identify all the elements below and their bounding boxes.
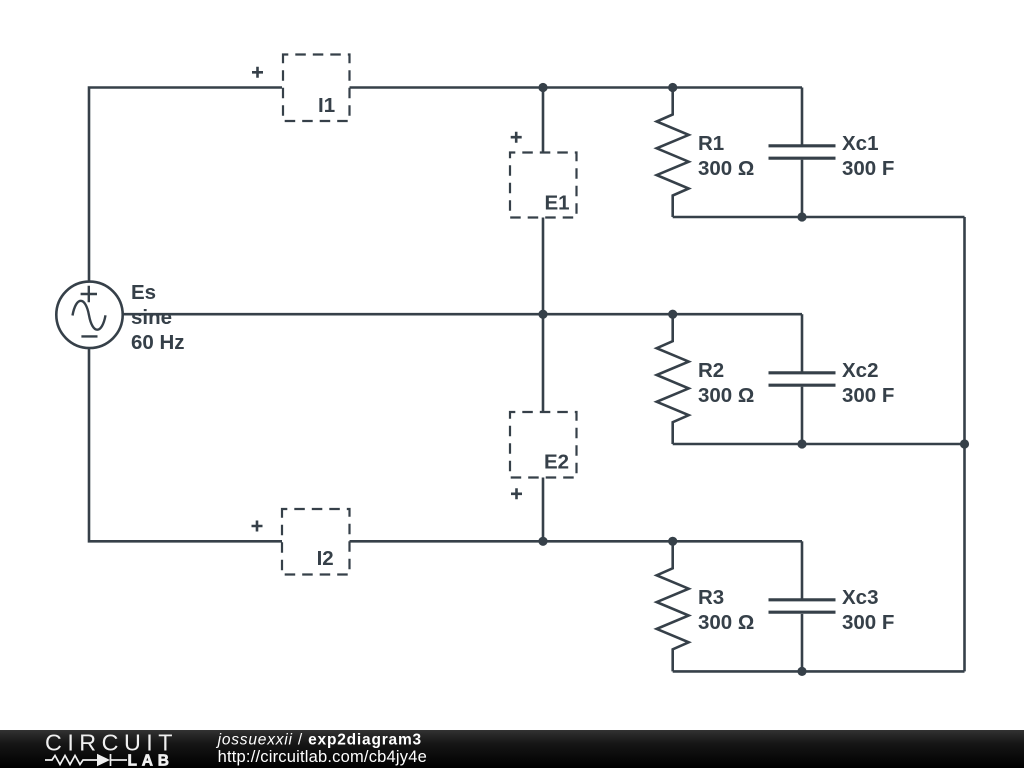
wire	[542, 478, 545, 542]
capacitor XC3	[769, 600, 836, 612]
wire	[673, 216, 965, 219]
wire	[801, 314, 804, 371]
wire	[89, 88, 282, 282]
svg-text:E1: E1	[545, 192, 570, 215]
wire	[801, 387, 804, 444]
wire	[801, 541, 804, 598]
resistor R2	[657, 314, 689, 444]
node: XC3 bottom junction	[797, 667, 806, 676]
voltmeter probe E1	[510, 153, 577, 218]
svg-text:300 F: 300 F	[842, 384, 894, 407]
wire	[542, 88, 545, 153]
ammeter probe I1	[283, 55, 350, 122]
node: top wire / R1 junction	[668, 83, 677, 92]
svg-text:jossuexxii / exp2diagram3: jossuexxii / exp2diagram3	[216, 732, 422, 749]
svg-text:LAB: LAB	[128, 752, 174, 768]
polarity plus of E1	[511, 132, 522, 143]
node: bottom wire / E2 junction	[538, 537, 547, 546]
svg-text:R2: R2	[698, 359, 724, 382]
wire	[350, 540, 803, 543]
svg-text:300 F: 300 F	[842, 611, 894, 634]
wire	[673, 443, 965, 446]
wire	[350, 86, 803, 89]
wire	[89, 348, 282, 541]
ammeter probe I2	[282, 509, 350, 575]
polarity plus of I1	[252, 67, 263, 78]
footer bar	[0, 730, 1024, 768]
svg-text:300 F: 300 F	[842, 157, 894, 180]
svg-text:Xc1: Xc1	[842, 132, 878, 155]
svg-text:http://circuitlab.com/cb4jy4e: http://circuitlab.com/cb4jy4e	[218, 748, 427, 766]
node: XC1 bottom junction	[797, 212, 806, 221]
svg-text:Es: Es	[131, 281, 156, 304]
wire	[542, 218, 545, 315]
svg-text:I2: I2	[317, 547, 334, 570]
voltmeter probe E2	[510, 412, 577, 478]
CircuitLab logo resistor-diode symbol	[45, 754, 127, 766]
svg-text:I1: I1	[318, 94, 335, 117]
node: top wire / E1 junction	[538, 83, 547, 92]
svg-text:R1: R1	[698, 132, 724, 155]
svg-text:300 Ω: 300 Ω	[698, 611, 754, 634]
svg-text:Xc3: Xc3	[842, 586, 878, 609]
voltage source ES	[56, 282, 122, 348]
capacitor XC2	[769, 373, 836, 385]
wire	[801, 614, 804, 672]
node: middle wire / R2 junction	[668, 310, 677, 319]
resistor R3	[657, 541, 689, 671]
polarity plus of I2	[252, 521, 263, 532]
node: right rail junction	[960, 439, 969, 448]
wire	[542, 314, 545, 412]
wire	[963, 217, 966, 671]
node: XC2 bottom junction	[797, 439, 806, 448]
svg-text:R3: R3	[698, 586, 724, 609]
wire	[801, 160, 804, 217]
wire	[801, 88, 804, 145]
svg-text:Xc2: Xc2	[842, 359, 878, 382]
wire	[123, 313, 802, 316]
wire	[673, 670, 965, 673]
svg-text:E2: E2	[544, 451, 569, 474]
svg-text:sine: sine	[131, 306, 172, 329]
polarity plus of E2	[511, 488, 522, 499]
capacitor XC1	[769, 146, 836, 158]
svg-text:300 Ω: 300 Ω	[698, 384, 754, 407]
node: middle wire / E junction	[538, 310, 547, 319]
svg-text:300 Ω: 300 Ω	[698, 157, 754, 180]
resistor R1	[657, 88, 689, 218]
svg-text:60 Hz: 60 Hz	[131, 331, 185, 354]
node: bottom wire / R3 junction	[668, 537, 677, 546]
